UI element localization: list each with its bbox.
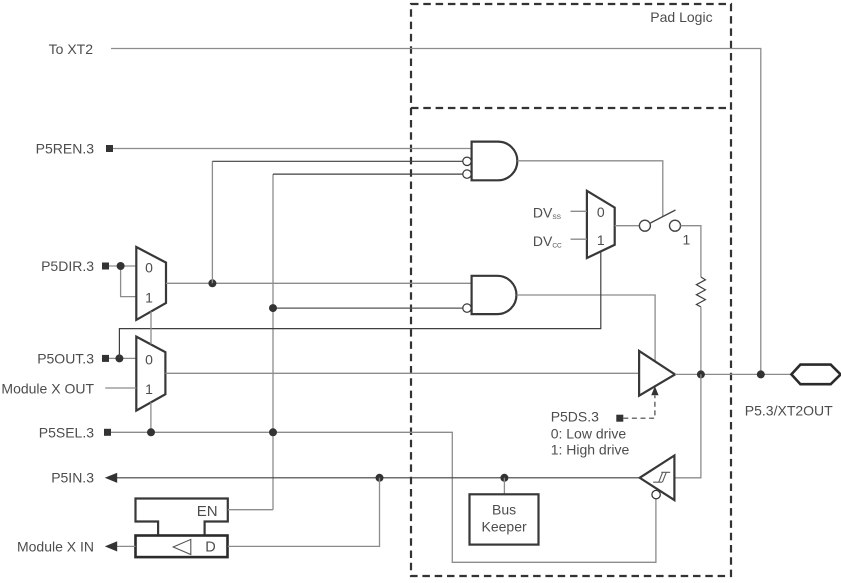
svg-text:0: 0 [145, 351, 153, 367]
svg-text:P5SEL.3: P5SEL.3 [39, 425, 94, 441]
wire switch to resistor R1 [681, 226, 701, 277]
junction node P5DIR.3 [117, 262, 125, 270]
latch D block [136, 536, 228, 558]
svg-text:DVSS: DVSS [533, 205, 562, 222]
wire driver output to pad [675, 373, 791, 375]
svg-text:1: 1 [145, 289, 153, 305]
wire P5REN.3 to NAND U1 input 1 [113, 148, 472, 150]
junction node select [147, 428, 155, 436]
svg-text:P5DIR.3: P5DIR.3 [41, 258, 94, 274]
wire mux U4 output to output driver [165, 372, 639, 374]
junction node XT2 tap [757, 370, 765, 378]
wire direction net riser [211, 161, 213, 283]
svg-text:EN: EN [197, 503, 218, 520]
svg-text:1: 1 [597, 232, 605, 248]
svg-text:P5IN.3: P5IN.3 [51, 470, 94, 486]
wire to NAND U1 input 2 [212, 160, 462, 162]
junction node sel-EN [269, 428, 277, 436]
wire vertical net select/enable riser [272, 174, 274, 510]
svg-text:1: 1 [683, 231, 691, 247]
svg-text:P5REN.3: P5REN.3 [36, 141, 95, 157]
marker square P5REN.3 [106, 145, 113, 152]
wire DVcc stub [571, 238, 587, 240]
wire pad node to schmitt input [674, 374, 701, 477]
marker square P5DS.3 [616, 415, 623, 422]
wire To XT2 [111, 49, 761, 375]
junction node P5OUT.3 [115, 354, 123, 362]
wire bus keeper stub [503, 478, 505, 495]
svg-text:To XT2: To XT2 [49, 41, 94, 57]
svg-text:D: D [205, 540, 215, 556]
pad logic dashed boundary box [411, 4, 731, 576]
wire mux U2 output to NAND U3 input 1 [166, 282, 472, 284]
output driver buffer U6 [639, 351, 675, 396]
wire P5OUT net to DV mux select [119, 251, 600, 358]
wire P5SEL.3 to schmitt enable bubble [111, 432, 656, 562]
mux U5 DV trapezoid [587, 191, 615, 258]
svg-text:1: High drive: 1: High drive [551, 441, 630, 457]
svg-text:P5.3/XT2OUT: P5.3/XT2OUT [745, 402, 833, 418]
label Bus Keeper [482, 501, 527, 534]
wire DVss stub [571, 210, 587, 212]
bus keeper box [470, 494, 539, 544]
pad P5.3/XT2OUT hexagon [791, 365, 840, 385]
svg-text:Bus: Bus [492, 501, 516, 517]
svg-text:Keeper: Keeper [482, 518, 527, 534]
schmitt input buffer U7 [640, 456, 675, 501]
wire mux U5 output to switch [615, 225, 640, 227]
svg-text:Module X OUT: Module X OUT [1, 381, 94, 397]
svg-text:Pad Logic: Pad Logic [650, 9, 712, 25]
svg-text:1: 1 [145, 381, 153, 397]
svg-text:P5DS.3: P5DS.3 [551, 408, 599, 424]
wire NAND U3 output to driver enable [517, 295, 656, 361]
svg-text:Module X IN: Module X IN [17, 539, 94, 555]
wire P5OUT.3 into mux U4 [109, 357, 136, 359]
mux U2 P5DIR trapezoid [136, 247, 166, 320]
NAND gate U3 (2-input) [463, 276, 517, 314]
svg-text:DVCC: DVCC [533, 233, 562, 250]
wire EN input [228, 509, 273, 511]
pad logic dashed divider [411, 107, 731, 109]
junction node direction net [208, 279, 216, 287]
junction node pad net [697, 370, 705, 378]
resistor R1 [696, 277, 705, 307]
arrow Module X IN [105, 541, 117, 551]
svg-text:P5OUT.3: P5OUT.3 [37, 351, 94, 367]
latch EN block [136, 499, 228, 536]
wire to NAND U3 input 2 [273, 307, 463, 309]
mux U4 P5OUT/Module trapezoid [136, 337, 165, 411]
junction node NAND U3 branch [269, 304, 277, 312]
wire mux select chain [150, 311, 152, 432]
arrow P5IN.3 [105, 473, 117, 483]
switch S1 contact left [639, 220, 650, 231]
wire P5IN.3 from schmitt output [116, 477, 640, 479]
wire NAND U1 output to switch arm [517, 161, 662, 217]
arrow P5DS.3 into driver [651, 386, 658, 395]
marker square P5DIR.3 [102, 263, 109, 270]
wire to NAND U1 input 3 [273, 173, 463, 175]
wire Module X OUT into mux U4 [105, 387, 136, 389]
wire P5DIR.3 to mux U2 inputs 0 and 1 [109, 266, 136, 297]
junction node D input tap [376, 474, 384, 482]
wire D input from P5IN net [228, 478, 380, 547]
svg-text:0: 0 [597, 204, 605, 220]
dashed wire P5DS.3 to driver [623, 396, 655, 419]
svg-text:0: 0 [145, 259, 153, 275]
switch S1 contact right [670, 220, 681, 231]
junction node bus keeper tap [500, 474, 508, 482]
svg-text:0: Low drive: 0: Low drive [551, 425, 627, 441]
NAND gate U1 (3-input) [463, 142, 518, 181]
switch S1 arm [650, 210, 675, 223]
marker square P5OUT.3 [102, 355, 109, 362]
marker square P5SEL.3 [104, 429, 111, 436]
wire Module X IN from latch [116, 545, 136, 547]
wire resistor R1 to pad node [700, 307, 702, 375]
